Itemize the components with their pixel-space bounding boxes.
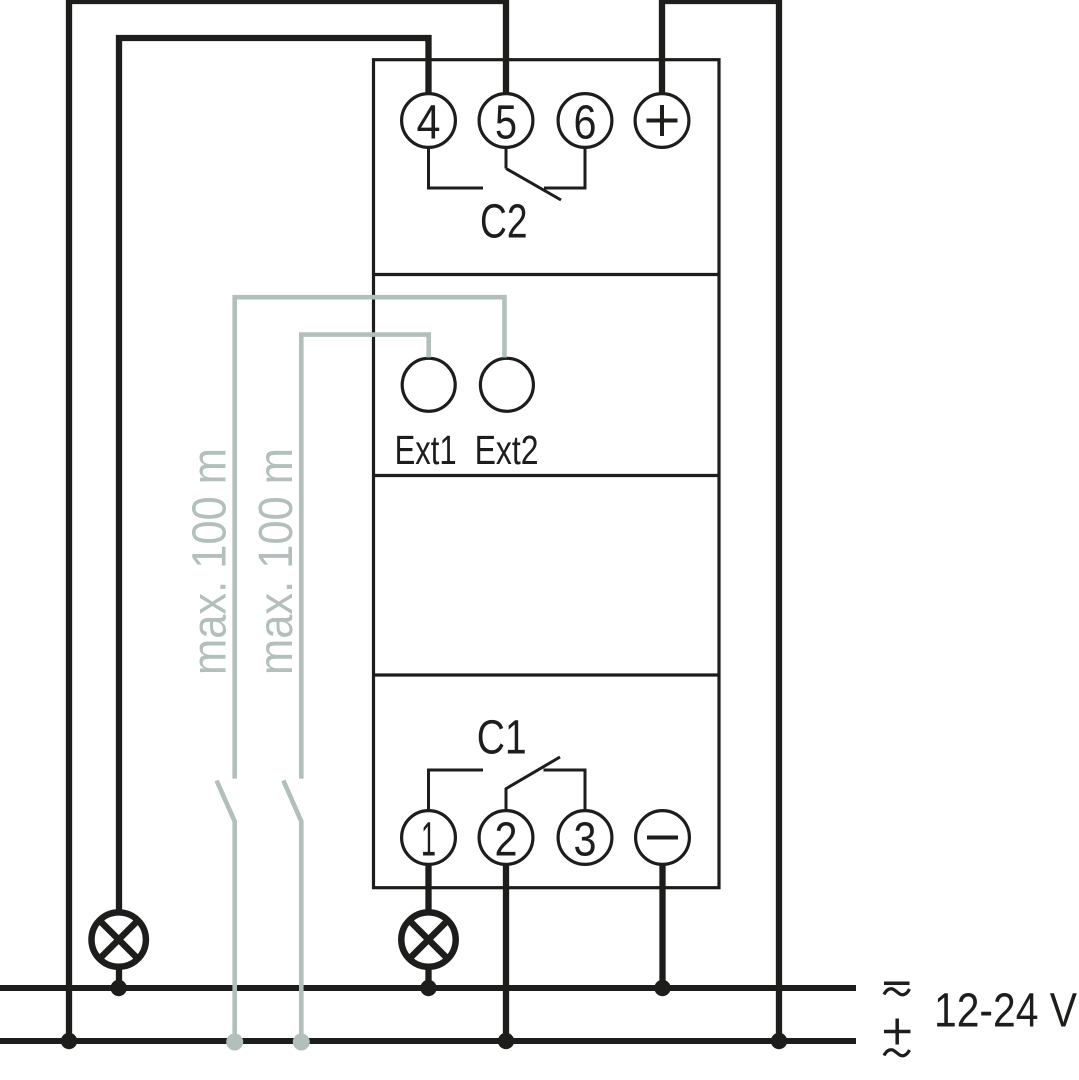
svg-text:max. 100 m: max. 100 m: [250, 448, 303, 675]
wire bus L2 to terminal 5: [69, 1, 506, 1041]
svg-text:1: 1: [421, 813, 436, 866]
terminal 2: [479, 811, 533, 865]
junction dot lamp E2 / bus L1: [420, 980, 436, 996]
junction dot lamp E1 / bus L1: [111, 980, 127, 996]
bus L1: [0, 985, 856, 991]
wire lamp E1 to terminal 4: [119, 38, 429, 910]
lamp E1: [92, 912, 146, 966]
terminal plus: [635, 94, 689, 148]
svg-text:C2: C2: [480, 196, 528, 249]
svg-text:3: 3: [574, 813, 597, 866]
svg-text:max. 100 m: max. 100 m: [184, 448, 237, 675]
device box U1: [374, 60, 720, 888]
wire terminal 1 to lamp E2: [425, 865, 431, 910]
gray wire switch S2 to Ext1: [301, 335, 428, 779]
relay contact C1 wiring: [429, 757, 586, 810]
terminal minus: [636, 811, 690, 865]
svg-text:C1: C1: [477, 711, 527, 764]
wire lamp E2 to bus L1: [425, 969, 431, 988]
wire terminal minus to bus L1: [659, 865, 665, 988]
lamp E2: [401, 912, 455, 966]
supply symbol AC/DC bar (bus L1): [884, 982, 910, 986]
gray junction dot S2 / bus L2: [293, 1034, 310, 1051]
supply symbol AC/DC tilde (bus L1): [884, 989, 910, 995]
svg-text:Ext1: Ext1: [395, 427, 457, 473]
bus L2: [0, 1038, 856, 1044]
svg-text:12-24 V: 12-24 V: [934, 985, 1077, 1038]
svg-text:6: 6: [574, 96, 597, 149]
junction dot right / bus L2: [771, 1033, 787, 1049]
switch S1 blade: [217, 781, 235, 1042]
terminal Ext2: [480, 358, 533, 411]
junction dot minus / bus L1: [654, 980, 670, 996]
terminal 4: [402, 94, 456, 148]
svg-text:4: 4: [417, 96, 441, 149]
terminal 3: [558, 811, 612, 865]
terminal 5: [479, 94, 533, 148]
terminal 1: [402, 811, 456, 865]
wire terminal plus to bus L2: [662, 1, 779, 1041]
relay contact C2 wiring: [429, 147, 586, 200]
svg-text:5: 5: [495, 96, 517, 149]
junction dot terminal 2 / bus L2: [498, 1033, 514, 1049]
terminal 6: [558, 94, 612, 148]
supply symbol plus (bus L2): [884, 1030, 911, 1034]
terminal Ext1: [402, 358, 455, 411]
switch S2 blade: [283, 781, 301, 1042]
junction dot left / bus L2: [61, 1033, 77, 1049]
gray wire switch S1 to Ext2: [235, 297, 505, 778]
gray junction dot S1 / bus L2: [226, 1034, 243, 1051]
svg-text:Ext2: Ext2: [475, 427, 539, 473]
svg-text:2: 2: [495, 813, 518, 866]
supply symbol tilde (bus L2): [884, 1050, 910, 1056]
wire lamp E1 to bus L1: [116, 969, 122, 988]
wire terminal 2 to bus L2: [503, 865, 509, 1041]
